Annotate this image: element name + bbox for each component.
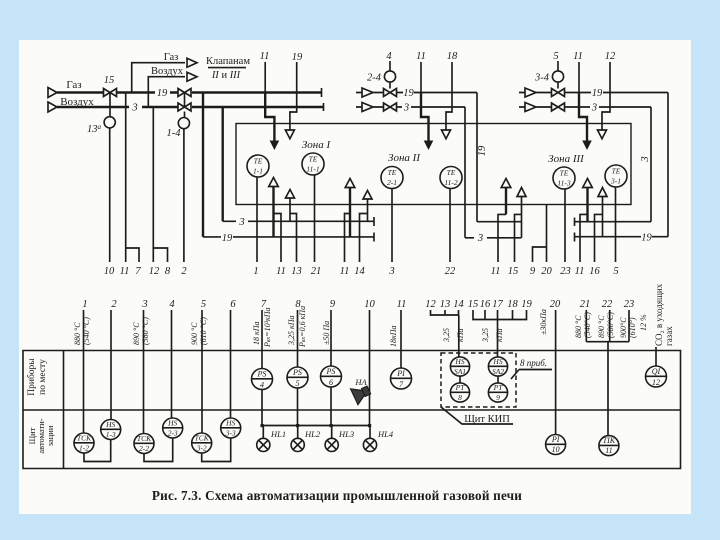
svg-text:Щит КИП: Щит КИП <box>464 414 510 425</box>
svg-text:19: 19 <box>477 145 488 156</box>
svg-text:Воздух: Воздух <box>151 66 184 77</box>
svg-text:ТСК: ТСК <box>77 434 92 443</box>
svg-text:2-1: 2-1 <box>387 178 397 187</box>
wire TCK1 to HS1 <box>84 440 111 462</box>
svg-text:НА: НА <box>354 377 367 387</box>
svg-text:5: 5 <box>296 379 300 388</box>
gas inlet arrow <box>48 88 57 98</box>
wire node 11 zone I drop <box>274 214 282 263</box>
svg-text:±50 Па: ±50 Па <box>322 321 331 345</box>
bracket 21-23 <box>586 310 629 436</box>
node tick line3 left end <box>373 217 375 226</box>
svg-text:11: 11 <box>397 299 407 310</box>
svg-text:13: 13 <box>440 299 451 310</box>
wire right loop 19 <box>667 93 669 237</box>
arrow inlet air 2-4 <box>356 103 383 112</box>
svg-text:11: 11 <box>340 266 350 277</box>
junction dot HL3 <box>330 424 333 427</box>
wire igniter 19 zone I <box>290 62 297 130</box>
lamp HL1 <box>257 426 286 452</box>
wire SA1 to PT8 <box>459 376 461 383</box>
svg-text:17: 17 <box>492 299 503 310</box>
wire node 5 to actuator 3-4 <box>557 61 559 71</box>
lamp HL2 <box>291 426 321 452</box>
svg-text:2-4: 2-4 <box>367 73 382 84</box>
wire node2 to HS 1-3 <box>110 310 112 420</box>
svg-text:кПа: кПа <box>456 328 465 342</box>
svg-text:ТЕ: ТЕ <box>560 169 569 178</box>
wire valve 3 to actuator 1-4 <box>184 112 186 118</box>
wire node8 to PS 5 <box>297 310 299 367</box>
svg-text:10: 10 <box>364 299 375 310</box>
svg-text:23: 23 <box>560 266 571 277</box>
wire valve 15 to sensor 13a <box>109 93 111 117</box>
svg-text:20: 20 <box>550 299 561 310</box>
svg-text:15: 15 <box>104 75 115 86</box>
wire igniter 11 zone III <box>578 62 580 93</box>
bracket 15-19 <box>473 310 527 357</box>
node tick air main end <box>323 103 325 111</box>
wire valve 3-4 gas out label 19 <box>565 92 668 94</box>
wire jog node 7 <box>126 248 139 262</box>
wire valve 3-4 air out label 3 <box>565 106 651 108</box>
wire 13a to node 10 <box>109 128 111 262</box>
wire node 11d drop <box>498 214 506 262</box>
svg-text:18кПа: 18кПа <box>389 325 398 347</box>
svg-text:11: 11 <box>260 51 270 62</box>
svg-text:3,25: 3,25 <box>442 328 451 343</box>
svg-text:1-2: 1-2 <box>79 444 89 453</box>
pressure switch PS 6 <box>321 366 342 387</box>
node tick line19 left end <box>373 233 375 242</box>
svg-text:газах: газах <box>664 326 674 346</box>
wire valve 2-4 gas out label 19 <box>397 92 477 94</box>
arrow igniter zone I filled <box>270 141 280 151</box>
svg-text:СО₂ в уходящих: СО₂ в уходящих <box>654 283 664 346</box>
svg-text:11: 11 <box>276 266 286 277</box>
svg-text:19: 19 <box>157 88 168 99</box>
recorder TIK 11 <box>599 436 619 456</box>
svg-text:HL2: HL2 <box>304 429 321 439</box>
svg-text:(540 °С): (540 °С) <box>82 317 91 345</box>
node tick gas main end <box>321 88 323 97</box>
wire actuator 3-4 stem <box>557 82 559 88</box>
wire air tap to line 3 <box>221 107 223 221</box>
gauge PI 7 <box>391 368 412 389</box>
svg-text:HL1: HL1 <box>270 429 286 439</box>
svg-text:11-2: 11-2 <box>444 178 457 187</box>
air inlet arrow <box>48 102 57 112</box>
svg-text:2: 2 <box>181 266 187 277</box>
svg-text:3-2: 3-2 <box>196 444 207 453</box>
lamp HL3 <box>325 426 354 452</box>
wire node20 to PI 10 <box>555 310 557 435</box>
svg-text:РТ: РТ <box>455 383 466 392</box>
svg-text:Клапанам: Клапанам <box>206 56 250 67</box>
svg-text:PS: PS <box>292 368 302 377</box>
burner zone II gas arrow <box>349 187 351 237</box>
svg-text:3: 3 <box>131 103 137 114</box>
svg-text:8 приб.: 8 приб. <box>520 358 547 368</box>
air main wire <box>57 106 324 108</box>
svg-text:Зона I: Зона I <box>302 139 332 151</box>
svg-text:PS: PS <box>326 367 336 376</box>
wire drop from valve 2-4 gas line 19 <box>476 93 478 222</box>
branch wire air up <box>148 77 185 107</box>
svg-text:880 °С: 880 °С <box>574 315 583 338</box>
svg-text:12: 12 <box>425 299 436 310</box>
thermocouple TE 1-1 <box>247 155 269 177</box>
wire TCK2 to HS2 <box>144 438 173 462</box>
valve 15 <box>104 89 117 97</box>
svg-text:3-1: 3-1 <box>610 177 621 186</box>
svg-text:QI: QI <box>652 367 661 376</box>
svg-text:11: 11 <box>575 266 585 277</box>
junction dot HL2 <box>296 424 299 427</box>
svg-text:18 кПа: 18 кПа <box>252 321 261 345</box>
svg-text:11: 11 <box>573 51 583 62</box>
actuator circle 3-4 <box>552 71 563 82</box>
pressure switch PS 5 <box>287 367 308 388</box>
burner zone III-a air arrow <box>517 188 526 215</box>
arrow inlet gas 2-4 <box>356 88 383 97</box>
svg-text:НS: НS <box>167 419 177 428</box>
svg-text:9: 9 <box>496 393 500 402</box>
svg-text:3: 3 <box>403 103 409 114</box>
svg-text:8: 8 <box>165 266 171 277</box>
svg-text:3,25 кПа: 3,25 кПа <box>287 315 296 346</box>
svg-text:890 °С: 890 °С <box>597 315 606 338</box>
wire node 4 to actuator 2-4 <box>389 61 391 71</box>
wire TE 11-3 to node 23 <box>564 189 566 262</box>
svg-text:3: 3 <box>388 266 394 277</box>
wire SA2 to PT9 <box>497 376 499 383</box>
controller TCK 1-2 <box>74 433 94 453</box>
svg-text:11: 11 <box>605 446 612 455</box>
svg-text:22: 22 <box>445 266 456 277</box>
svg-text:PS: PS <box>257 370 267 379</box>
arrow igniter 18 open <box>442 130 451 139</box>
svg-text:4: 4 <box>169 299 175 310</box>
svg-text:Зона III: Зона III <box>548 153 585 165</box>
svg-text:12: 12 <box>605 51 616 62</box>
svg-text:12 %: 12 % <box>639 314 648 331</box>
svg-text:Приборы: Приборы <box>26 358 37 396</box>
thermocouple TE 11-2 <box>440 167 462 189</box>
wire line 3 middle section <box>465 214 522 237</box>
arrow air top <box>187 72 197 81</box>
valve 19 <box>178 89 191 97</box>
node tick middle <box>574 233 576 242</box>
switch HS 1-3 <box>101 420 121 440</box>
valve 3 <box>178 103 191 111</box>
svg-text:16: 16 <box>589 266 600 277</box>
svg-text:21: 21 <box>311 266 322 277</box>
wire node 15 drop <box>515 214 522 262</box>
wire 11 to node number <box>125 93 127 263</box>
wire node3 to TCK 2-2 <box>143 310 145 434</box>
svg-text:18: 18 <box>447 51 458 62</box>
wire gas tap to line 19 <box>202 93 204 237</box>
svg-text:ТЕ: ТЕ <box>254 157 263 166</box>
actuator circle 1-4 <box>178 118 189 129</box>
label Щит КИП <box>441 407 513 424</box>
wire TE 11-1 to node 21 <box>314 175 316 262</box>
analyzer QI 12 <box>646 366 667 387</box>
switch HS 2-3 <box>163 418 183 438</box>
svg-text:15: 15 <box>468 299 479 310</box>
svg-text:3-4: 3-4 <box>534 73 550 84</box>
burner zone III-a gas arrow <box>505 187 507 214</box>
wire igniter 12 zone III <box>602 62 610 130</box>
valve 3-4 gas <box>552 89 565 97</box>
svg-text:(540°С): (540°С) <box>583 312 592 338</box>
wire TE 1-1 to node 1 <box>256 177 258 262</box>
svg-text:SA2: SA2 <box>492 367 504 376</box>
svg-text:18: 18 <box>507 299 518 310</box>
wire node 20 drop <box>546 205 548 263</box>
gauge PI 10 <box>546 435 566 455</box>
arrow gas top <box>187 58 197 67</box>
gas main wire <box>57 91 322 93</box>
svg-text:1: 1 <box>253 266 258 277</box>
svg-text:8: 8 <box>458 393 462 402</box>
svg-text:HL3: HL3 <box>338 429 354 439</box>
svg-text:(610 °С): (610 °С) <box>199 317 208 345</box>
svg-text:22: 22 <box>602 299 613 310</box>
svg-text:11: 11 <box>120 266 130 277</box>
switch HS 3-3 <box>221 418 241 438</box>
wire actuator to valve stem <box>389 82 391 88</box>
svg-text:16: 16 <box>480 299 491 310</box>
svg-text:ТЕ: ТЕ <box>309 155 318 164</box>
gauge PT 8 <box>450 383 469 402</box>
svg-text:9: 9 <box>530 266 536 277</box>
wire 1-4 to node 2 <box>183 129 185 262</box>
node tick H1 <box>574 218 576 227</box>
svg-text:±30кПа: ±30кПа <box>539 309 548 335</box>
bracket 12-14 <box>431 310 459 357</box>
branch wire gas up <box>132 63 185 93</box>
svg-text:19: 19 <box>641 233 652 244</box>
wire node 11c drop <box>345 214 351 263</box>
svg-text:6: 6 <box>329 378 333 387</box>
svg-text:890 °С: 890 °С <box>132 322 141 345</box>
pressure switch PS 4 <box>252 369 273 390</box>
arrow igniter zone II filled <box>424 141 434 151</box>
arrow igniter 12 open <box>598 130 607 139</box>
wire node7 to PS 4 <box>261 310 263 369</box>
wire TCK3 to HS3 <box>202 438 231 462</box>
wire right loop 3 <box>650 107 652 222</box>
svg-text:1-1: 1-1 <box>253 167 263 176</box>
wire valve 2-4 air out label 3 <box>397 106 465 108</box>
burner zone I gas arrow <box>272 186 274 237</box>
svg-text:Газ: Газ <box>164 52 179 63</box>
svg-text:Газ: Газ <box>66 79 81 91</box>
svg-text:1-3: 1-3 <box>106 430 116 439</box>
wire node11 to PI 7 <box>400 310 402 368</box>
svg-text:НS: НS <box>105 420 115 429</box>
svg-text:3: 3 <box>238 217 244 228</box>
svg-text:10: 10 <box>552 445 560 454</box>
svg-text:4: 4 <box>386 51 392 62</box>
wire node 16 drop <box>595 214 603 262</box>
svg-text:21: 21 <box>580 299 591 310</box>
wire node 14 drop <box>360 214 368 263</box>
svg-text:ТЕ: ТЕ <box>447 168 456 177</box>
svg-text:1-4: 1-4 <box>167 128 182 139</box>
wire node 9 drop <box>533 247 547 262</box>
svg-text:HL4: HL4 <box>377 429 394 439</box>
wire node6 to HS 3-3 <box>230 310 232 418</box>
svg-text:2-3: 2-3 <box>168 429 178 438</box>
svg-text:3: 3 <box>141 299 147 310</box>
svg-text:ТЕ: ТЕ <box>612 167 621 176</box>
wire igniter 11 zone II <box>420 62 422 93</box>
wire line 19 left section <box>203 236 374 238</box>
svg-text:11: 11 <box>416 51 426 62</box>
svg-text:Рис. 7.3. Схема автоматизации: Рис. 7.3. Схема автоматизации промышленн… <box>152 488 522 503</box>
thermocouple TE 3-1 <box>605 165 627 187</box>
valve 3-4 air <box>552 103 565 111</box>
svg-text:3,25: 3,25 <box>481 328 490 343</box>
svg-text:14: 14 <box>354 266 365 277</box>
svg-text:880 °С: 880 °С <box>73 322 82 345</box>
controller TCK 3-2 <box>192 433 212 453</box>
svg-text:PI: PI <box>396 369 405 378</box>
svg-text:по месту: по месту <box>38 359 48 395</box>
svg-text:НS: НS <box>454 357 464 366</box>
table frame <box>23 351 681 469</box>
switch HS SA1 <box>450 357 469 376</box>
svg-text:ТIК: ТIК <box>603 436 616 445</box>
svg-text:13: 13 <box>291 266 302 277</box>
valve 2-4 air <box>384 103 397 111</box>
wire line 19 right section <box>575 236 669 238</box>
svg-text:12: 12 <box>149 266 160 277</box>
svg-text:11-1: 11-1 <box>306 165 319 174</box>
wire node1 to TCK 1-2 <box>83 310 85 433</box>
thermocouple TE 11-3 <box>553 167 575 189</box>
svg-text:15: 15 <box>508 266 519 277</box>
wire node 11e drop <box>580 214 588 262</box>
wire TE 3-1 to node 5 <box>615 187 617 262</box>
svg-text:11-3: 11-3 <box>557 179 570 188</box>
svg-text:23: 23 <box>624 299 635 310</box>
svg-text:19: 19 <box>592 88 603 99</box>
svg-text:11: 11 <box>491 266 501 277</box>
arrow inlet air 3-4 <box>519 103 551 112</box>
arrow igniter zone I open <box>285 130 294 139</box>
svg-text:19: 19 <box>403 88 414 99</box>
svg-text:19: 19 <box>292 52 303 63</box>
svg-text:1: 1 <box>82 299 87 310</box>
svg-text:3: 3 <box>591 103 597 114</box>
svg-text:3: 3 <box>640 156 651 162</box>
svg-text:РI: РI <box>551 435 560 444</box>
svg-text:РТ: РТ <box>493 383 504 392</box>
svg-text:20: 20 <box>541 266 552 277</box>
svg-text:900°С: 900°С <box>619 317 628 338</box>
svg-text:6: 6 <box>230 299 236 310</box>
wire line gas mid right <box>477 221 651 223</box>
arrow igniter zone III filled <box>582 141 592 151</box>
sensor circle 13a <box>104 117 115 128</box>
actuator circle 2-4 <box>384 71 395 82</box>
thermocouple TE 2-1 <box>381 167 403 189</box>
svg-text:12: 12 <box>652 378 660 387</box>
svg-text:4: 4 <box>260 381 264 390</box>
lamp HL4 <box>363 426 393 452</box>
wire node5 to TCK 3-2 <box>201 310 203 433</box>
switch HS SA2 <box>488 357 507 376</box>
svg-text:2: 2 <box>111 299 117 310</box>
wire drop from valve 2-4 air <box>464 107 466 238</box>
svg-text:9: 9 <box>330 299 336 310</box>
valve 2-4 gas <box>384 89 397 97</box>
svg-text:SA1: SA1 <box>454 367 466 376</box>
dashed box KIP <box>441 353 516 407</box>
svg-text:(610°): (610°) <box>628 317 637 338</box>
junction dot HL1 <box>261 424 264 427</box>
horn HA symbol <box>351 382 373 405</box>
junction dot HL4 <box>368 424 371 427</box>
burner zone III-b air arrow <box>598 188 607 237</box>
svg-text:5: 5 <box>553 51 558 62</box>
burner zone III-b gas arrow <box>586 187 588 222</box>
wire jog node 8 <box>153 248 167 262</box>
svg-text:19: 19 <box>222 233 233 244</box>
wire node9 to PS 6 <box>330 310 332 366</box>
svg-text:НS: НS <box>225 419 235 428</box>
svg-text:кПа: кПа <box>495 328 504 342</box>
svg-text:зации: зации <box>45 425 55 446</box>
gauge PT 9 <box>488 383 507 402</box>
wire node4 to HS 2-3 <box>171 310 173 418</box>
svg-text:2-2: 2-2 <box>139 444 149 453</box>
wire TE 2-1 to node 3 <box>391 189 393 263</box>
controller TCK 2-2 <box>134 434 154 454</box>
svg-text:5: 5 <box>201 299 206 310</box>
arrow inlet gas 3-4 <box>519 88 551 97</box>
svg-text:3-3: 3-3 <box>225 429 236 438</box>
wire 12 <box>152 107 154 262</box>
wire line 3 left section <box>223 220 374 222</box>
svg-text:II и III: II и III <box>211 70 241 81</box>
wire lamp bus <box>262 387 370 426</box>
wire node10 to horn HA <box>369 310 371 426</box>
svg-text:7: 7 <box>135 266 141 277</box>
wire node 13 drop <box>290 214 297 263</box>
svg-text:3: 3 <box>477 233 483 244</box>
wire igniter 18 zone II <box>446 62 452 130</box>
svg-text:(580 °С): (580 °С) <box>141 317 150 345</box>
svg-text:19: 19 <box>521 299 532 310</box>
burner zone II air arrow <box>363 191 372 222</box>
svg-text:5: 5 <box>613 266 618 277</box>
burner zone I air arrow <box>286 190 295 222</box>
svg-text:14: 14 <box>453 299 464 310</box>
wire igniter 11 zone I <box>264 62 266 93</box>
svg-text:900 °С: 900 °С <box>190 322 199 345</box>
svg-text:ТСК: ТСК <box>195 434 210 443</box>
svg-text:ТСК: ТСК <box>137 434 152 443</box>
svg-text:(580°С): (580°С) <box>606 312 615 338</box>
wire CO2 to QI 12 <box>655 347 657 367</box>
svg-text:ТЕ: ТЕ <box>388 168 397 177</box>
svg-text:Зона II: Зона II <box>388 152 421 164</box>
